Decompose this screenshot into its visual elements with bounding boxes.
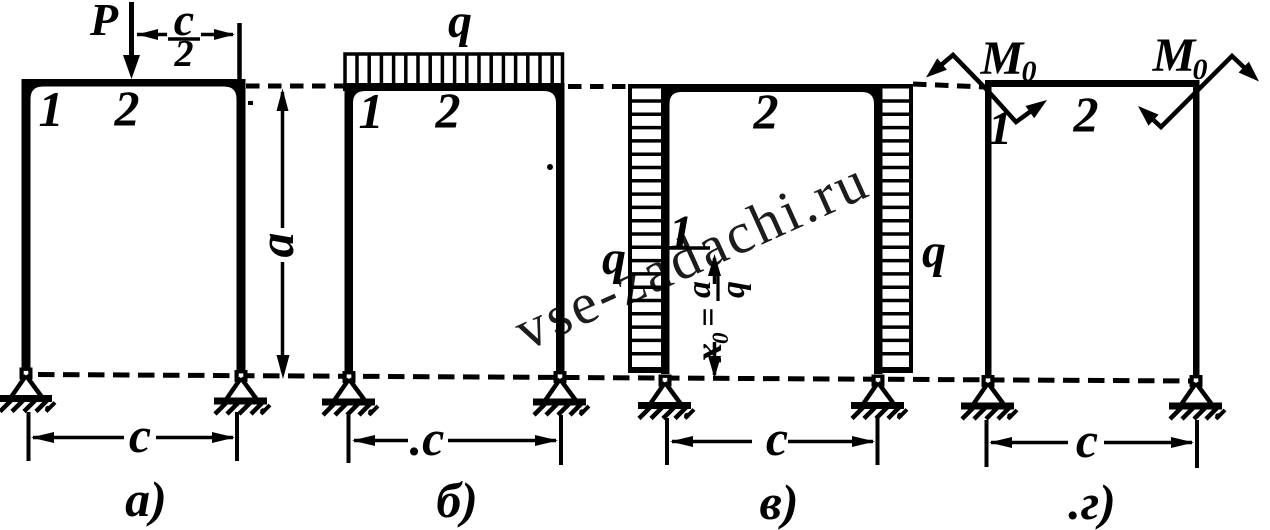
support g right (1169, 375, 1225, 419)
right load strip top cap (880, 84, 913, 89)
svg-text:x: x (688, 343, 730, 363)
support v right (851, 375, 907, 419)
dim c frame b ticks (347, 415, 351, 463)
svg-text:0: 0 (1022, 55, 1037, 88)
left load strip bottom cap (628, 367, 661, 373)
speck dot inside frame b (547, 164, 553, 170)
frame a right corner fillet (224, 87, 237, 100)
label a (rotated) (248, 233, 304, 258)
svg-text:2: 2 (174, 33, 194, 75)
svg-text:2: 2 (753, 83, 779, 139)
svg-text:2: 2 (435, 82, 461, 138)
support g left (961, 375, 1017, 419)
moment arrow right inner (1146, 93, 1195, 127)
svg-text:в): в) (760, 474, 799, 530)
svg-text:.c: .c (410, 410, 445, 466)
frame b left fillet (353, 91, 365, 103)
svg-text:q: q (715, 281, 752, 298)
right load strip outer rail (909, 84, 913, 371)
svg-text:P: P (89, 0, 119, 45)
dim c/2 line (137, 33, 167, 37)
left load strip rungs (630, 101, 663, 354)
svg-text:c: c (766, 410, 788, 466)
dim c frame a: ticks (27, 412, 31, 461)
svg-text:1: 1 (39, 81, 64, 137)
svg-text:a: a (248, 233, 304, 258)
moment arrow left outer (934, 55, 988, 91)
svg-text:=: = (690, 308, 727, 327)
frame g beam (985, 80, 1200, 87)
svg-text:c: c (1076, 412, 1098, 468)
left load strip outer rail (628, 84, 632, 371)
top dashed line v-g (913, 84, 984, 87)
frame v left column (661, 84, 670, 374)
support a right (214, 370, 270, 414)
support b left (322, 371, 378, 415)
moment arrow left inner (989, 92, 1038, 122)
svg-text:q: q (448, 0, 472, 48)
svg-text:.г): .г) (1068, 474, 1116, 530)
left load strip top cap (628, 84, 661, 89)
svg-text:1: 1 (988, 102, 1012, 155)
svg-text:q: q (602, 232, 626, 285)
frame a right column (237, 79, 246, 372)
distributed load q rect (345, 54, 563, 85)
support b right (533, 371, 589, 415)
svg-text:c: c (129, 407, 151, 463)
svg-text:а): а) (125, 471, 167, 527)
svg-text:M: M (980, 32, 1026, 85)
svg-text:q: q (922, 225, 946, 278)
frame v right fillet (862, 92, 874, 104)
moment arrow right outer (1196, 56, 1251, 92)
frame v left fillet (670, 92, 682, 104)
load P arrow (129, 2, 134, 60)
dim c frame v ticks (665, 418, 669, 465)
right load strip rungs (880, 101, 911, 354)
svg-text:2: 2 (1073, 86, 1099, 142)
frame v right column (874, 84, 883, 374)
label x0 = a/q (rotated) (681, 276, 752, 363)
dim c frame g line (991, 441, 1068, 445)
right load strip bottom cap (880, 367, 913, 373)
frame g right column (1193, 80, 1200, 375)
top dashed line b-v (568, 84, 628, 89)
x0 dimension line (713, 258, 717, 284)
frame g left column (985, 80, 992, 375)
frame b left column (345, 83, 354, 372)
support v left (638, 375, 694, 419)
svg-text:M: M (1152, 29, 1198, 82)
frame b right column (556, 83, 565, 372)
frame a beam (22, 79, 246, 87)
svg-text:a: a (681, 281, 718, 298)
frame b beam (343, 83, 565, 91)
svg-text:1: 1 (359, 83, 384, 139)
speck dot top right of frame a (248, 101, 253, 105)
extension line above right corner (237, 23, 242, 80)
frame b right fillet (544, 91, 556, 103)
frame v beam (661, 84, 883, 92)
svg-text:2: 2 (114, 80, 140, 136)
frame a left corner fillet (31, 87, 44, 100)
dim a vertical line (281, 92, 285, 228)
dim c frame a: line and arrows (33, 436, 124, 440)
svg-text:0: 0 (708, 332, 733, 344)
svg-text:1: 1 (669, 206, 693, 259)
dim c frame b line (354, 439, 408, 443)
dim c frame v line (672, 440, 752, 444)
load q hatch lines (357, 55, 552, 84)
dim c frame g ticks (985, 420, 989, 467)
watermark vse-zadachi.ru (505, 147, 879, 363)
support a left (0, 368, 55, 412)
bottom dashed line (38, 375, 1193, 382)
svg-text:0: 0 (1193, 53, 1208, 86)
frame a left column (22, 79, 31, 369)
svg-text:б): б) (436, 472, 478, 528)
level tick at node 1 (666, 246, 710, 250)
top dashed line a-b (246, 84, 344, 89)
